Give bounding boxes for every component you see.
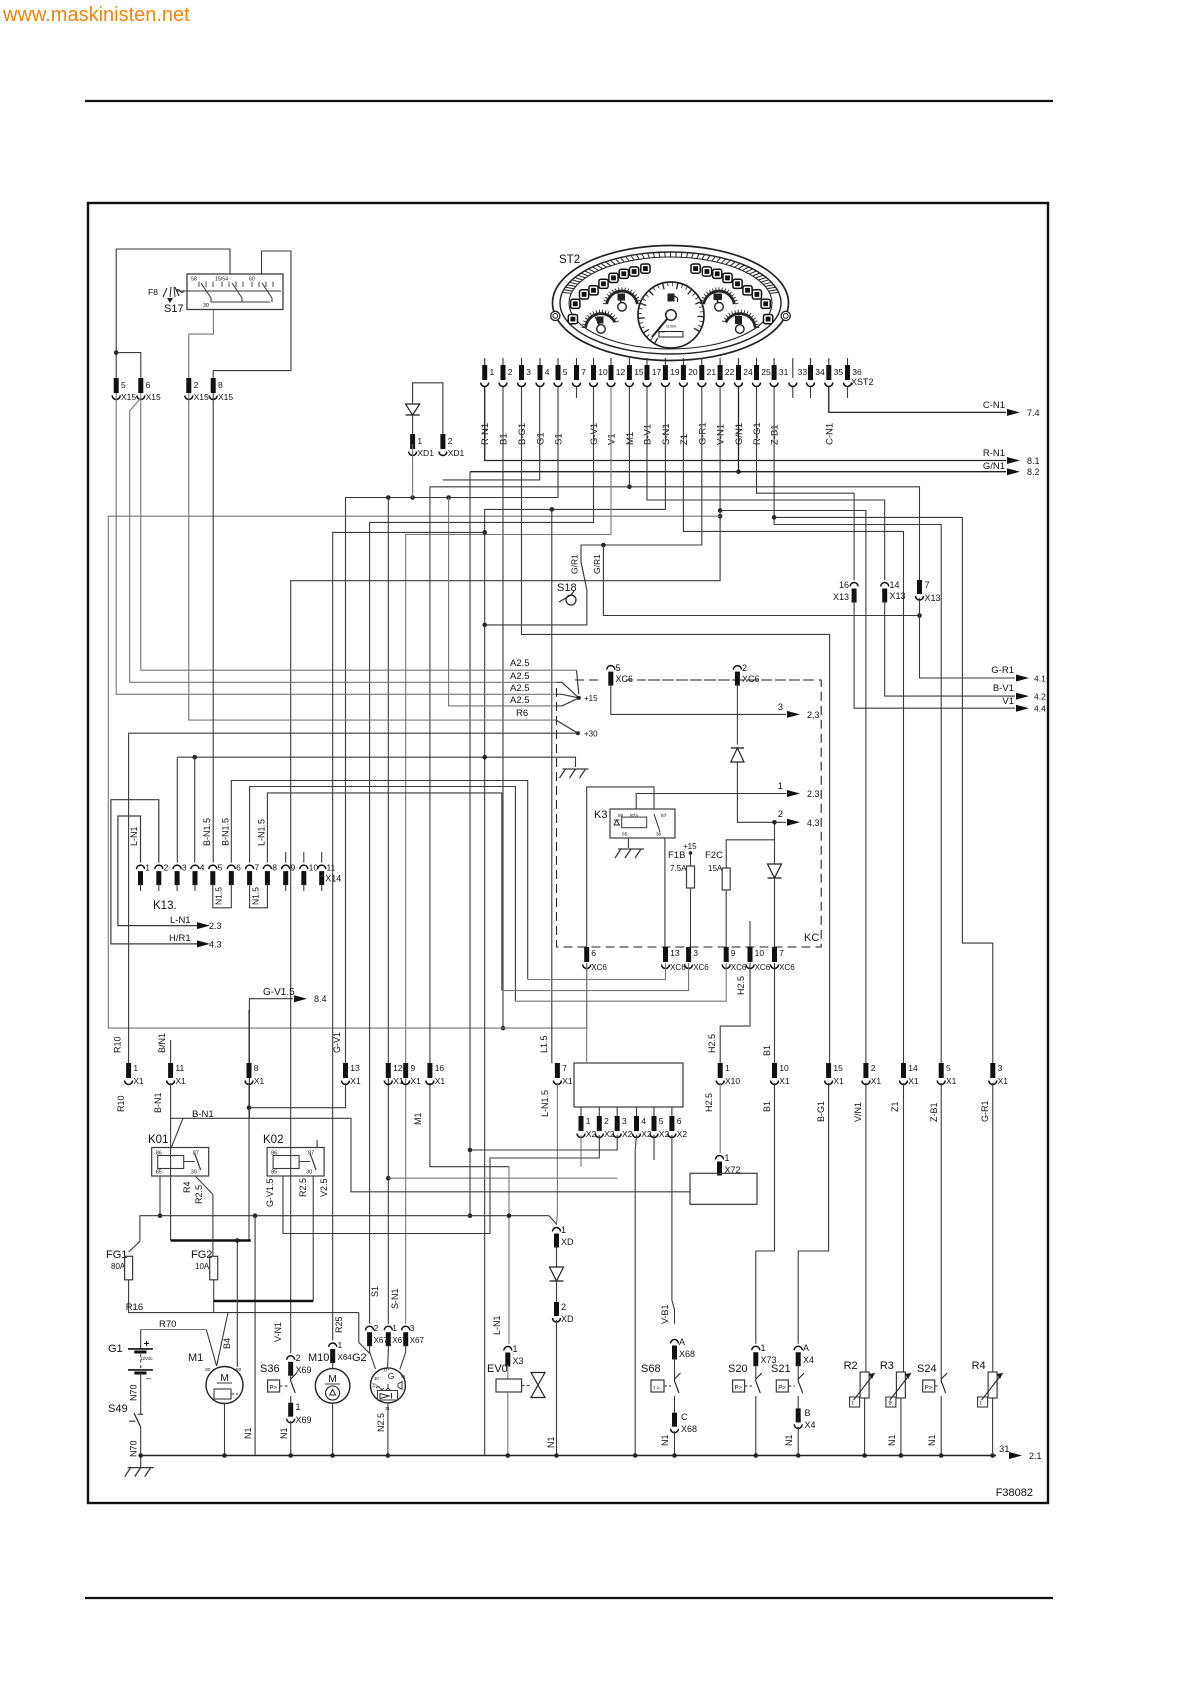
svg-text:X1: X1: [779, 1076, 790, 1086]
svg-text:85: 85: [271, 1170, 277, 1176]
svg-text:X1: X1: [175, 1076, 186, 1086]
svg-text:+30: +30: [584, 730, 598, 739]
svg-text:N1: N1: [660, 1434, 670, 1446]
svg-text:X15: X15: [121, 392, 136, 402]
wire S68 to bus: [674, 1431, 676, 1456]
svg-text:V/N1: V/N1: [853, 1102, 863, 1122]
control box at X72: [690, 1173, 757, 1204]
svg-text:7.4: 7.4: [1027, 408, 1040, 418]
wire +30 feed from FG1: [129, 733, 578, 1063]
svg-text:P>: P>: [778, 1386, 786, 1392]
wire A2.5 no4: [412, 444, 414, 498]
stub K02-87: [316, 1140, 318, 1148]
svg-text:B: B: [805, 1408, 811, 1418]
svg-text:Z-B1: Z-B1: [929, 1102, 939, 1122]
svg-text:7.5A: 7.5A: [670, 864, 687, 873]
svg-text:V-B1: V-B1: [660, 1304, 670, 1324]
svg-text:R4: R4: [182, 1181, 192, 1193]
connector X13 pin 14: [881, 583, 889, 587]
svg-text:87a: 87a: [630, 813, 638, 819]
svg-text:G-V1.5: G-V1.5: [263, 987, 295, 998]
svg-text:S-N1: S-N1: [661, 423, 672, 445]
svg-text:17: 17: [652, 367, 662, 377]
wire Z1 to X1 pin 14: [683, 387, 903, 1063]
svg-text:XC6: XC6: [755, 963, 771, 972]
svg-text:X2: X2: [677, 1129, 688, 1139]
svg-text:A2.5: A2.5: [510, 683, 530, 694]
stub pin 7: [576, 387, 578, 398]
wire K3-30 to XC6 pin 13: [664, 838, 666, 947]
svg-text:M1: M1: [413, 1112, 423, 1125]
svg-text:R16: R16: [126, 1302, 143, 1313]
wire V/N1 to R2: [865, 1083, 867, 1372]
svg-text:30: 30: [203, 303, 209, 309]
svg-text:X1: X1: [908, 1076, 919, 1086]
svg-text:X13: X13: [833, 592, 849, 602]
connector XD pin 1: [553, 1228, 561, 1232]
wire X1-8 below to B-N1 bar: [248, 1108, 250, 1241]
svg-text:2,3: 2,3: [807, 710, 820, 720]
svg-text:20: 20: [688, 367, 698, 377]
connector XD1: [410, 434, 415, 449]
svg-text:4.3: 4.3: [209, 940, 222, 950]
connector X13 pin 16: [850, 583, 858, 587]
svg-text:2.1: 2.1: [1029, 1451, 1042, 1461]
svg-text:X1: X1: [871, 1076, 882, 1086]
svg-text:4: 4: [200, 863, 205, 873]
wire R-G1 to connector X13 pin 16: [757, 387, 855, 580]
tachometer: [638, 282, 704, 348]
svg-text:M1: M1: [188, 1352, 203, 1364]
wire M1 run to X1-16 and X13-7: [628, 387, 630, 487]
svg-text:XC6: XC6: [779, 963, 795, 972]
svg-text:X67: X67: [410, 1336, 425, 1345]
connector XC6 pin 2: [733, 666, 741, 670]
svg-text:50: 50: [236, 1367, 242, 1373]
module KC dashed box: [557, 680, 822, 947]
merge symbol +15: [577, 670, 579, 694]
wire R16 from FG1: [129, 1280, 359, 1313]
wire R25 to X67-2: [359, 1313, 370, 1354]
svg-text:8.2: 8.2: [1027, 467, 1040, 477]
svg-text:8: 8: [272, 863, 277, 873]
connector X68 pin A: [671, 1340, 679, 1344]
connector XC6 pin 5: [607, 666, 615, 670]
svg-text:8: 8: [218, 380, 223, 390]
svg-text:K13.: K13.: [153, 900, 177, 912]
wire X2-1 to EV0 via X3: [508, 1167, 510, 1344]
svg-text:R3: R3: [880, 1360, 894, 1372]
svg-text:X1: X1: [562, 1076, 573, 1086]
bus arrow 31 to 2.1: [990, 1453, 995, 1458]
svg-text:P>: P>: [735, 1386, 743, 1392]
svg-text:M: M: [328, 1374, 336, 1385]
wire X2-6 V-B1 to S68: [672, 1135, 675, 1324]
wire X15-8 to X14 pin 5: [212, 393, 214, 863]
svg-text:15: 15: [833, 1063, 843, 1073]
svg-text:P>: P>: [925, 1386, 933, 1392]
svg-text:R-N1: R-N1: [983, 448, 1005, 459]
svg-text:12Vdc: 12Vdc: [140, 1356, 154, 1361]
svg-text:N1: N1: [546, 1436, 556, 1448]
svg-text:X1: X1: [254, 1076, 265, 1086]
svg-text:N1.5: N1.5: [214, 887, 224, 905]
svg-text:G1: G1: [108, 1343, 123, 1355]
svg-text:13: 13: [350, 1063, 360, 1073]
svg-text:X15: X15: [146, 392, 161, 402]
ground wire column to bottom bus: [484, 625, 486, 1456]
svg-text:4.4: 4.4: [1034, 704, 1046, 714]
svg-text:3: 3: [526, 367, 531, 377]
svg-text:t >: t >: [654, 1386, 660, 1392]
svg-text:3: 3: [693, 948, 698, 958]
wire G/R1 branch via S18 to X13 pin 7 junction: [603, 545, 919, 616]
connector X69 pin 1: [288, 1403, 293, 1417]
svg-text:5: 5: [946, 1063, 951, 1073]
svg-text:X69: X69: [296, 1365, 312, 1375]
svg-text:30: 30: [191, 1170, 197, 1176]
heavy run to K02: [214, 1300, 314, 1303]
svg-text:R-G1: R-G1: [752, 422, 763, 445]
svg-text:X1: X1: [350, 1076, 361, 1086]
wire diode to XD1 pin 2: [413, 383, 443, 434]
svg-text:87: 87: [661, 813, 667, 819]
svg-text:XST2: XST2: [851, 377, 874, 387]
wire G/N1 to sheet 8.2: [739, 387, 1007, 472]
svg-text:www.maskinisten.net: www.maskinisten.net: [2, 4, 190, 26]
svg-text:XD: XD: [561, 1314, 574, 1324]
svg-text:58: 58: [191, 277, 197, 283]
svg-text:14: 14: [890, 580, 900, 590]
svg-text:25: 25: [761, 367, 771, 377]
svg-text:S20: S20: [728, 1363, 748, 1375]
svg-text:10A: 10A: [195, 1262, 210, 1271]
wire N1 column to bus: [254, 1216, 256, 1456]
svg-text:ST2: ST2: [559, 254, 580, 266]
svg-text:2.3: 2.3: [209, 921, 222, 931]
svg-text:N2.5: N2.5: [376, 1413, 386, 1432]
svg-text:B1: B1: [762, 1101, 772, 1112]
svg-text:G: G: [388, 1371, 395, 1381]
wire XC6-6 into block: [586, 963, 588, 1063]
wire S36 to bus: [290, 1421, 292, 1456]
top rule: [85, 100, 1053, 102]
svg-text:7: 7: [562, 1063, 567, 1073]
svg-text:12: 12: [616, 367, 626, 377]
svg-text:11: 11: [327, 863, 336, 873]
svg-text:R2.5: R2.5: [298, 1178, 308, 1197]
wire XD to bus: [556, 1320, 558, 1456]
svg-text:8.1: 8.1: [1027, 456, 1040, 466]
svg-text:G2: G2: [352, 1352, 367, 1364]
svg-text:X4: X4: [803, 1355, 814, 1365]
svg-text:XC6: XC6: [616, 674, 634, 684]
svg-text:K01: K01: [148, 1134, 168, 1146]
stub X2-5: [653, 1135, 655, 1160]
wire X1-8 column to FG2 run: [248, 1083, 250, 1108]
wire Z-B1 to X1 pin 5: [774, 387, 941, 1063]
svg-text:R25: R25: [334, 1316, 344, 1333]
svg-text:4: 4: [641, 1116, 646, 1126]
svg-text:H2.5: H2.5: [704, 1093, 714, 1112]
svg-text:B-G1: B-G1: [816, 1101, 826, 1122]
wire G-V1.5 to arrow 8.4: [249, 999, 293, 1119]
wire X1-16 below to EV0 net run: [430, 1083, 509, 1167]
svg-text:30: 30: [205, 1367, 211, 1373]
svg-text:XD1: XD1: [448, 448, 465, 458]
wire XC6-3 route to X14-8 chain: [502, 963, 689, 991]
svg-text:X15: X15: [194, 392, 209, 402]
wire X2-3 route column: [469, 472, 471, 1150]
stub pin 36: [847, 387, 849, 398]
svg-text:N1: N1: [927, 1434, 937, 1446]
svg-text:L-N1: L-N1: [492, 1315, 502, 1335]
wire K3-85 to ground: [627, 838, 629, 848]
wire XC6-9 route to X14-7 chain: [515, 963, 726, 1001]
svg-text:2: 2: [508, 367, 513, 377]
svg-text:X1: X1: [411, 1076, 422, 1086]
svg-text:22: 22: [725, 367, 735, 377]
N1.5 link pins 7-8: [250, 891, 268, 908]
cluster warning lamp squares: [571, 299, 580, 308]
svg-text:1: 1: [513, 1344, 518, 1354]
svg-text:1: 1: [133, 1063, 138, 1073]
svg-text:9: 9: [291, 863, 296, 873]
svg-text:X64: X64: [338, 1353, 353, 1362]
svg-text:R10: R10: [116, 1095, 126, 1112]
wire X14 pin 1 to L-N1 arrow: [118, 816, 204, 926]
svg-text:G-V1: G-V1: [332, 1032, 342, 1053]
svg-text:5: 5: [218, 863, 223, 873]
svg-text:S21: S21: [771, 1363, 791, 1375]
svg-text:K3: K3: [594, 809, 607, 821]
merge symbol +30: [556, 720, 578, 733]
wire B4 from M1-50 to relay bar: [236, 1241, 238, 1368]
stub pin 33: [792, 387, 794, 398]
svg-text:3: 3: [622, 1116, 627, 1126]
wire XC6-7 B1 to X1 pin 10: [774, 963, 776, 1063]
svg-text:1: 1: [296, 1402, 301, 1412]
svg-text:86: 86: [618, 813, 624, 819]
svg-text:F38082: F38082: [996, 1487, 1033, 1499]
svg-text:15: 15: [634, 367, 644, 377]
svg-text:1: 1: [761, 1343, 766, 1353]
main ground: [128, 1467, 154, 1469]
wire Z-B1 to S24: [940, 1083, 942, 1379]
wire C-N1 to sheet 7.4: [829, 387, 1006, 412]
svg-text:L1.5: L1.5: [539, 1035, 549, 1053]
svg-text:B1: B1: [499, 433, 510, 445]
wire X2-3 to XD route: [470, 1135, 617, 1150]
svg-text:N1: N1: [243, 1427, 253, 1439]
wire G2 to bus: [387, 1403, 389, 1456]
connector X1 row: [126, 1063, 131, 1078]
svg-text:13: 13: [670, 948, 680, 958]
svg-text:Z1: Z1: [890, 1101, 900, 1112]
bottom rule: [85, 1597, 1053, 1599]
wire battery to S49: [140, 1373, 142, 1414]
svg-text:P>: P>: [270, 1386, 278, 1392]
wire XC6-5 to arrow 2,3: [611, 684, 786, 714]
svg-text:10: 10: [779, 1063, 789, 1073]
svg-text:K02: K02: [263, 1134, 283, 1146]
svg-text:S1: S1: [370, 1286, 380, 1297]
svg-text:XC6: XC6: [731, 963, 747, 972]
svg-text:L▪ᵥ˗: L▪ᵥ˗: [658, 329, 666, 334]
svg-text:2: 2: [374, 1323, 379, 1333]
svg-text:G-V1: G-V1: [589, 423, 600, 445]
wire branch to X1 pin 3: [772, 515, 777, 520]
wire X14 pin 2 to H/R1 arrow: [111, 800, 204, 944]
instrument cluster ST2: [553, 246, 789, 361]
svg-text:2: 2: [871, 1063, 876, 1073]
connector X68 pin C: [672, 1413, 677, 1427]
S36 switch blade: [290, 1375, 292, 1380]
svg-text:G-R1: G-R1: [697, 422, 708, 445]
wire X1-13 to junction run: [249, 1083, 346, 1108]
connector X73 pin 1: [752, 1346, 760, 1350]
svg-text:X1: X1: [435, 1076, 446, 1086]
svg-text:R2: R2: [844, 1360, 858, 1372]
wire G-R1 to R4: [992, 1083, 994, 1372]
svg-text:A: A: [803, 1343, 809, 1353]
ground symbol mid: [563, 768, 589, 770]
svg-text:G-R1: G-R1: [991, 665, 1014, 676]
wire branch V-N1 to X1 pin 2: [718, 508, 723, 513]
svg-text:–: –: [146, 1373, 151, 1383]
svg-text:4,3: 4,3: [807, 818, 820, 828]
svg-text:9: 9: [411, 1063, 416, 1073]
svg-text:M10: M10: [308, 1352, 329, 1364]
svg-text:XC6: XC6: [591, 963, 607, 972]
svg-text:XC6: XC6: [670, 963, 686, 972]
wire G-V1 to X67 pin 2: [370, 387, 594, 1324]
svg-text:C-N1: C-N1: [983, 400, 1005, 411]
svg-text:31: 31: [779, 367, 789, 377]
N1.5 link pins 5-6: [213, 891, 232, 908]
svg-text:R70: R70: [159, 1319, 176, 1330]
wire diode to arrow 4,3 junction: [737, 762, 786, 822]
diode in KC right: [774, 822, 776, 864]
svg-text:X13: X13: [925, 593, 941, 603]
svg-text:H2.5: H2.5: [707, 1034, 717, 1053]
svg-text:1: 1: [725, 1153, 730, 1163]
wire FG1 to relay run 1215 diagonal: [129, 1241, 140, 1252]
svg-text:15/54: 15/54: [215, 277, 228, 283]
wire V-N1 to connector X69: [291, 387, 720, 1353]
svg-text:X1: X1: [833, 1076, 844, 1086]
svg-text:1: 1: [417, 436, 422, 446]
svg-text:G/R1: G/R1: [592, 554, 602, 574]
svg-text:S-N1: S-N1: [390, 1288, 400, 1309]
svg-text:4: 4: [545, 367, 550, 377]
wire R70 from battery to M1: [141, 1329, 207, 1331]
svg-text:XD: XD: [561, 1237, 574, 1247]
svg-text:2: 2: [778, 809, 783, 820]
wire B-G1 jog to S21: [798, 1083, 828, 1344]
wire S1 to X67 pin 1 and X1 pin 13: [346, 387, 559, 1063]
svg-text:H/R1: H/R1: [169, 933, 191, 944]
wire to X14 pin 8: [267, 793, 501, 991]
svg-text:6: 6: [591, 948, 596, 958]
svg-text:R-N1: R-N1: [480, 423, 491, 445]
svg-text:15A: 15A: [708, 864, 723, 873]
diode at XD: [556, 1246, 558, 1267]
svg-text:B-V1: B-V1: [643, 424, 654, 445]
svg-text:M: M: [220, 1373, 228, 1384]
junction run under K02: [386, 1176, 391, 1181]
svg-text:B-N1.5: B-N1.5: [221, 818, 231, 846]
connector X13 pin 7: [917, 580, 922, 594]
svg-text:30: 30: [374, 1376, 379, 1381]
wire X2-4 to bus: [635, 1135, 636, 1456]
wire K02-85 G-V1.5 down: [283, 1176, 287, 1234]
svg-text:35: 35: [834, 367, 844, 377]
connector XST2: [484, 358, 486, 365]
svg-text:S24: S24: [917, 1363, 937, 1375]
svg-text:6: 6: [236, 863, 241, 873]
svg-text:5: 5: [616, 663, 621, 673]
wire Z1 to R3: [903, 1083, 905, 1372]
svg-text:R10: R10: [113, 1036, 123, 1053]
svg-text:1: 1: [490, 367, 495, 377]
connector X72: [716, 1156, 724, 1160]
svg-text:16: 16: [839, 580, 849, 590]
svg-text:7: 7: [925, 580, 930, 590]
wire V1 to connector X67 pin 3: [406, 387, 611, 1324]
svg-text:5: 5: [563, 367, 568, 377]
svg-text:2: 2: [561, 1302, 566, 1312]
wire EV0 to bus: [507, 1392, 509, 1456]
svg-text:A: A: [679, 1337, 685, 1347]
svg-text:8.4: 8.4: [314, 994, 327, 1004]
svg-text:1: 1: [145, 863, 150, 873]
wire M1 to bus: [224, 1404, 226, 1456]
svg-text:N70: N70: [129, 1384, 139, 1401]
svg-text:N1: N1: [279, 1427, 289, 1439]
svg-text:B/N1: B/N1: [157, 1033, 167, 1053]
svg-text:21: 21: [707, 367, 717, 377]
wire B1 jog to S20: [756, 1083, 775, 1344]
svg-text:85: 85: [622, 832, 628, 838]
svg-text:1: 1: [586, 1116, 591, 1126]
svg-text:86: 86: [156, 1151, 162, 1157]
stub pin 34: [810, 387, 812, 398]
wire X1-7 L-N1.5 to XD merge: [556, 1083, 559, 1224]
wire FG2 to heavy run: [213, 1280, 215, 1313]
wire R6 from X15-2: [189, 393, 556, 720]
svg-text:8: 8: [254, 1063, 259, 1073]
svg-text:B4: B4: [222, 1338, 232, 1349]
svg-text:4.2: 4.2: [1034, 692, 1046, 702]
svg-text:X15: X15: [218, 392, 233, 402]
svg-text:V-N1: V-N1: [273, 1322, 283, 1342]
terminal block above X2: [574, 1063, 683, 1107]
svg-text:7: 7: [581, 367, 586, 377]
svg-text:7: 7: [779, 948, 784, 958]
svg-text:9: 9: [731, 948, 736, 958]
svg-text:C-N1: C-N1: [824, 423, 835, 445]
wire X10-1 to X72-1: [719, 1083, 721, 1153]
wire B-G1 to X1 pin 15: [522, 387, 830, 1063]
svg-text:2: 2: [448, 436, 453, 446]
svg-text:6: 6: [677, 1116, 682, 1126]
svg-text:4.1: 4.1: [1034, 674, 1046, 684]
svg-text:Z1: Z1: [679, 434, 690, 445]
svg-text:N70: N70: [129, 1440, 139, 1457]
wire A2.5 no1 from X15-6: [141, 393, 577, 670]
svg-text:S68: S68: [641, 1363, 661, 1375]
